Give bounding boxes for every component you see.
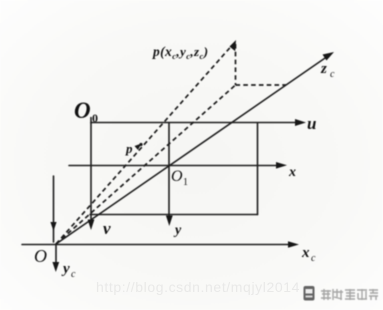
svg-text:http://blog.csdn.net/mqjyl2014: http://blog.csdn.net/mqjyl2014 xyxy=(96,279,300,295)
